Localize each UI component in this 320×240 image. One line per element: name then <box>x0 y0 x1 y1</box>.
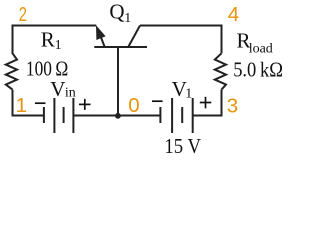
svg-text:3: 3 <box>227 95 238 118</box>
wire bottom right to Rload <box>193 90 222 116</box>
resistor Rload <box>215 53 226 89</box>
battery Vin plate short <box>63 107 65 123</box>
minus sign V1 <box>152 100 163 102</box>
wire left vertical to bottom rail <box>13 90 44 116</box>
plus sign V1 <box>200 102 212 104</box>
transistor Q1 emitter arrowhead <box>96 25 106 40</box>
battery Vin plate long <box>53 98 55 133</box>
svg-text:1: 1 <box>16 94 27 117</box>
battery Vin plate short (negative) <box>43 107 45 123</box>
minus sign Vin <box>35 102 46 104</box>
svg-text:5.0 kΩ: 5.0 kΩ <box>233 57 283 81</box>
wire bottom middle rail <box>73 115 160 117</box>
battery V1 plate long <box>171 98 173 133</box>
battery V1 plate short <box>181 107 183 123</box>
transistor Q1 emitter diagonal <box>100 34 105 47</box>
plus sign Vin <box>79 103 91 105</box>
svg-text:V: V <box>50 77 65 101</box>
svg-text:1: 1 <box>55 38 62 53</box>
svg-text:1: 1 <box>124 11 131 26</box>
svg-text:Q: Q <box>109 0 124 23</box>
battery V1 plate short (negative) <box>159 107 161 123</box>
battery Vin plate long (positive) <box>72 98 74 133</box>
resistor R1 <box>6 53 17 89</box>
wire top-right rail (node 4) <box>140 26 222 54</box>
battery V1 plate long (positive) <box>192 98 194 133</box>
svg-text:2: 2 <box>19 3 27 26</box>
svg-text:4: 4 <box>228 3 239 26</box>
transistor Q1 base bar <box>94 46 147 48</box>
svg-text:0: 0 <box>128 94 139 117</box>
svg-text:15 V: 15 V <box>164 134 201 158</box>
junction dot node 0 <box>115 113 121 119</box>
transistor Q1 collector diagonal <box>129 26 141 47</box>
wire top-left horizontal (node 2 rail) <box>13 26 97 55</box>
svg-text:1: 1 <box>185 86 192 101</box>
svg-text:in: in <box>65 86 76 101</box>
svg-text:R: R <box>41 27 55 51</box>
wire base lead to node 0 <box>117 48 119 116</box>
svg-text:load: load <box>249 41 273 56</box>
